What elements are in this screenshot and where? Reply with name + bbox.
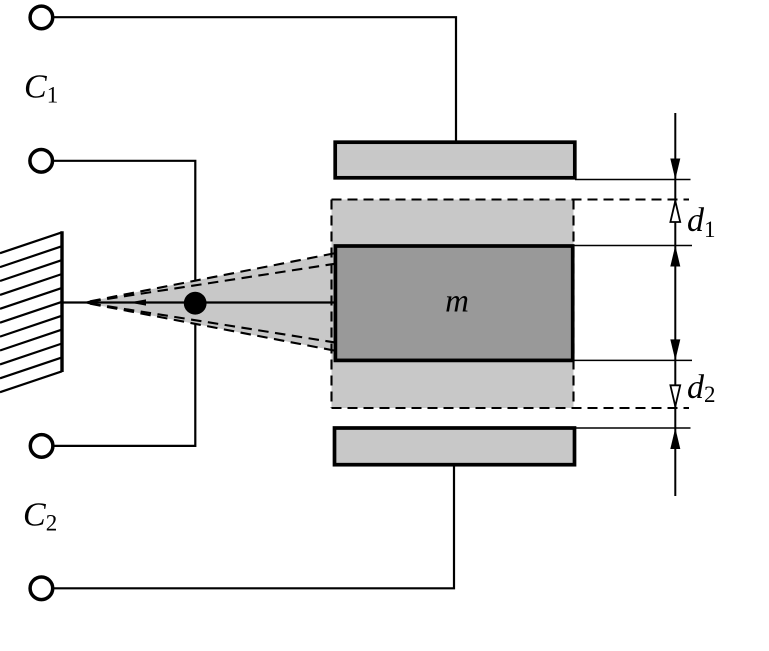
dashed envelope top edge [332, 198, 690, 200]
arrow down to top-plate line [670, 159, 680, 180]
dashed envelope left edge [330, 200, 332, 409]
pivot dot [184, 292, 207, 315]
terminal T2 [30, 150, 53, 173]
beam centerline [62, 301, 334, 303]
wire from T2 down to T3 (common electrode wire) [53, 161, 195, 446]
top fixed plate [335, 142, 575, 178]
proof mass m [335, 246, 572, 360]
wire from T4 to bottom plate [53, 464, 454, 588]
anchor wall (hatched support) [0, 231, 62, 392]
terminal T3 [30, 435, 53, 458]
fan inner dashed edge upper [84, 264, 334, 303]
fan inner dashed edge lower [84, 303, 334, 343]
dashed envelope bottom edge [332, 407, 690, 409]
terminal T4 [30, 577, 53, 600]
apex tick of beam fan [83, 300, 91, 304]
open arrow down to dashed line d2 [670, 385, 680, 406]
extension line, mass bottom [574, 359, 692, 361]
svg-text:m: m [445, 284, 469, 320]
fan outer dashed edge upper [84, 253, 334, 302]
extension line, bottom plate top [575, 427, 691, 429]
dashed envelope right edge [572, 200, 574, 409]
extension line, mass top [574, 245, 692, 247]
arrow up to mass-top line [670, 246, 680, 267]
bottom fixed plate [335, 428, 575, 465]
dimension line vertical [674, 113, 676, 496]
gap envelope (dashed rectangle) fill [332, 200, 574, 409]
beam sweep fan fill [84, 253, 334, 350]
fan outer dashed edge lower [84, 303, 334, 351]
wire from C1 top terminal to top plate [53, 17, 456, 143]
terminal T1 [30, 6, 53, 29]
open arrow up to dashed line d1 [670, 201, 680, 222]
arrowhead on centerline [129, 299, 146, 305]
arrow down to mass-bottom line [670, 339, 680, 360]
arrow up to bottom-plate line [670, 428, 680, 449]
extension line, top plate bottom [575, 179, 691, 181]
